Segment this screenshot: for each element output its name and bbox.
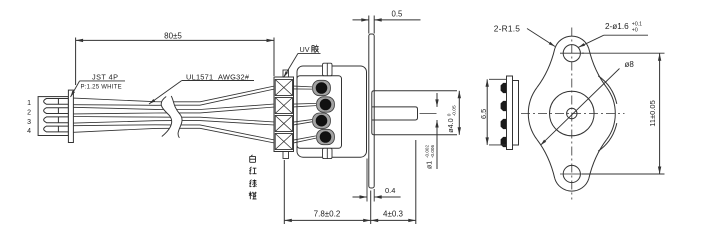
svg-text:11±0.05: 11±0.05 bbox=[648, 100, 657, 127]
svg-text:ø4.0: ø4.0 bbox=[446, 118, 455, 132]
svg-text:1: 1 bbox=[27, 100, 31, 107]
svg-text:3: 3 bbox=[27, 119, 31, 126]
svg-text:6.5: 6.5 bbox=[479, 109, 488, 119]
svg-text:ø8: ø8 bbox=[625, 60, 635, 69]
svg-text:4: 4 bbox=[27, 128, 31, 135]
svg-text:80±5: 80±5 bbox=[164, 32, 182, 41]
svg-text:+0: +0 bbox=[632, 28, 638, 34]
svg-text:2: 2 bbox=[27, 110, 31, 117]
svg-text:7.8±0.2: 7.8±0.2 bbox=[314, 209, 341, 218]
svg-text:-0.006: -0.006 bbox=[430, 145, 435, 158]
svg-text:0: 0 bbox=[447, 113, 453, 116]
svg-text:-0.05: -0.05 bbox=[452, 105, 458, 116]
svg-text:P:1.25 WHITE: P:1.25 WHITE bbox=[81, 84, 122, 90]
svg-text:UL1571 AWG32#: UL1571 AWG32# bbox=[186, 72, 250, 81]
svg-text:0.4: 0.4 bbox=[385, 186, 395, 195]
svg-text:0.5: 0.5 bbox=[392, 9, 404, 18]
svg-text:UV: UV bbox=[300, 45, 310, 54]
svg-text:JST 4P: JST 4P bbox=[92, 72, 119, 81]
svg-text:4±0.3: 4±0.3 bbox=[383, 209, 404, 218]
svg-text:ø1: ø1 bbox=[427, 161, 434, 169]
svg-text:2-ø1.6: 2-ø1.6 bbox=[605, 22, 629, 31]
svg-text:2-R1.5: 2-R1.5 bbox=[494, 23, 520, 33]
